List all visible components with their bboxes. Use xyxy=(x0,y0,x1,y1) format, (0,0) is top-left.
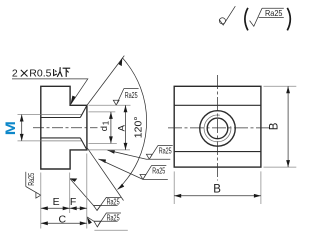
thread crest line (top, thin) xyxy=(41,114,82,116)
left view part body (section outline) xyxy=(41,86,87,169)
E dimension line xyxy=(41,207,70,209)
arc arrowhead bottom xyxy=(118,183,125,191)
svg-text:C: C xyxy=(59,214,67,226)
120 deg angle extension line (upper) xyxy=(87,56,124,106)
right view square body xyxy=(174,86,261,167)
thread crest line (bottom, thin) xyxy=(41,140,82,142)
E/F/C extension line (left face) xyxy=(40,173,42,229)
centerline (left view axis) xyxy=(33,127,98,129)
svg-text:B: B xyxy=(213,184,221,196)
svg-text:Ra25: Ra25 xyxy=(26,173,36,186)
A dimension extension lines xyxy=(89,104,131,106)
bore line (top, thick) xyxy=(41,117,81,119)
Ra25 with leader to right face corner (lower of pair) xyxy=(98,158,168,179)
thread crest arc (3/4) xyxy=(204,115,231,142)
tongue top edge (right view) xyxy=(174,104,261,106)
Ra25 with bent leader to right-face extension line (bottom) xyxy=(87,212,128,230)
svg-text:F: F xyxy=(70,196,76,208)
120 deg angle dimension arc xyxy=(118,58,147,190)
countersink face (lower) xyxy=(80,138,87,150)
svg-text:A: A xyxy=(117,124,128,131)
countersink face (upper) xyxy=(80,105,87,117)
B dimension (bottom) extension lines xyxy=(173,171,175,204)
hole vertical centerline xyxy=(217,75,219,181)
parenthesized surface roughness note (Ra25) xyxy=(245,8,290,31)
F dimension line xyxy=(70,207,87,209)
thread bore circle xyxy=(207,118,228,139)
120 deg angle extension line (lower) xyxy=(88,148,124,200)
svg-text:Ra25: Ra25 xyxy=(125,90,138,100)
svg-text:Ra25: Ra25 xyxy=(107,212,120,222)
tongue bottom edge (right view) xyxy=(174,151,261,153)
Ra25 with bent leader to step-face extension line xyxy=(69,178,121,211)
F/C extension line (right face) xyxy=(86,154,88,229)
B dimension line (bottom) xyxy=(174,195,261,197)
Ra25 symbol on A extension line (boss surface) xyxy=(113,89,138,106)
Ra25 with leader to right face corner (upper of pair) xyxy=(108,145,173,159)
M dimension extension lines xyxy=(18,114,41,116)
hole horizontal centerline xyxy=(168,127,271,129)
svg-text:R0.5: R0.5 xyxy=(29,67,51,79)
svg-text:E: E xyxy=(53,196,60,208)
svg-text:120°: 120° xyxy=(133,116,145,138)
kanji 以 (hand drawn) xyxy=(54,67,63,77)
svg-text:B: B xyxy=(268,122,280,130)
svg-text:d: d xyxy=(99,126,110,131)
B dimension (right side) extension lines xyxy=(264,85,297,87)
A dimension line xyxy=(125,105,127,150)
Ra25 rotated symbol on left-face extension line xyxy=(26,172,41,198)
svg-text:Ra25: Ra25 xyxy=(107,197,120,207)
svg-text:2: 2 xyxy=(12,67,18,79)
A label xyxy=(117,124,128,131)
d1 dimension extension lines xyxy=(89,111,116,113)
kanji 下 (hand drawn) xyxy=(63,68,71,77)
svg-text:Ra25: Ra25 xyxy=(159,146,172,156)
B dimension line (right) xyxy=(287,86,289,167)
svg-text:Ra25: Ra25 xyxy=(152,166,165,176)
svg-text:Ra25: Ra25 xyxy=(265,8,283,18)
bore line (bottom, thick) xyxy=(41,137,81,139)
countersink mouth circle xyxy=(200,111,236,147)
C dimension line xyxy=(41,222,87,224)
svg-text:M: M xyxy=(3,121,18,135)
E/F extension line (step) xyxy=(69,173,71,214)
svg-text:1: 1 xyxy=(101,120,110,125)
leader arrow at step corner xyxy=(70,96,75,105)
wire: leader underline for 2xR0.5 note xyxy=(12,79,88,104)
M dimension line with arrows xyxy=(21,115,23,141)
d1 label xyxy=(99,120,110,131)
d1 dimension line xyxy=(110,112,112,143)
general surface symbol (check with circle) xyxy=(219,6,235,25)
arc arrowhead top xyxy=(118,57,123,66)
